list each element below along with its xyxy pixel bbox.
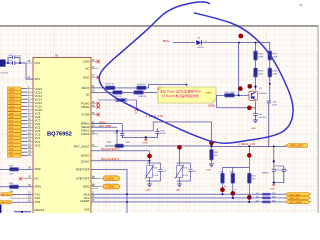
resistor R108 [134, 91, 143, 94]
wire x255 vertical to R100 [255, 43, 257, 51]
junction dots on cap net [7, 62, 9, 64]
resistor R35 column [232, 167, 234, 198]
svg-text:GND: GND [251, 128, 256, 130]
sticky note annotation [158, 87, 216, 103]
svg-text:VSS: VSS [84, 208, 90, 212]
note corner mark [159, 88, 162, 90]
svg-text:GND: GND [176, 190, 181, 192]
red dot on REG1 drop [209, 140, 214, 145]
no-connect X on NC pin [23, 178, 33, 180]
pull-up feed from rail [248, 146, 250, 167]
svg-text:VC0: VC0 [35, 143, 41, 147]
bus wire SCL [91, 197, 258, 199]
wire x269 vertical chain [269, 50, 271, 52]
left edge wire bottom [0, 205, 2, 214]
wire R106 to junction [146, 85, 186, 88]
wire between R105 R106 [115, 87, 137, 89]
wire Q7 down to C49 [255, 101, 257, 113]
red dot on feed [247, 153, 252, 158]
junction dot x269 [269, 83, 271, 85]
svg-text:CFETOFF: CFETOFF [76, 176, 90, 180]
bottom-left wire segment [14, 211, 31, 213]
wire to CF1 pin 48 [26, 62, 33, 64]
capacitor C46 [272, 169, 276, 182]
resistor R34 column [222, 167, 224, 194]
thermistor group RT2 [175, 163, 193, 184]
ground symbol under R33 [209, 164, 214, 167]
resistor R117 column [248, 167, 250, 202]
svg-text:PACK: PACK [82, 86, 90, 90]
upper wire with C36/C39 [122, 136, 157, 138]
resistor R101 [268, 51, 272, 60]
svg-text:0.1uF: 0.1uF [16, 56, 22, 58]
red power-ground flag [144, 137, 147, 140]
svg-text:PDSG: PDSG [81, 105, 90, 109]
wire DCHG to vertical drop [91, 169, 127, 213]
svg-text:R38: R38 [272, 193, 275, 195]
svg-text:HDQ: HDQ [83, 185, 90, 189]
svg-text:R108 1K: R108 1K [138, 96, 147, 98]
net label BAT_NTC (TS1) [1, 193, 13, 196]
wire RST_SHUT [91, 126, 117, 128]
wire R33 to gnd [211, 160, 213, 164]
svg-text:10nF: 10nF [272, 105, 278, 107]
svg-text:SS8550: SS8550 [259, 93, 268, 95]
resistor R30 [115, 144, 124, 147]
svg-text:9MF1P: 9MF1P [262, 172, 270, 174]
svg-text:SGND: SGND [208, 105, 215, 108]
wire to BAT pin 47 [26, 63, 33, 79]
wire R103 to Q7 [255, 77, 257, 90]
resistor R28 on SRP wire [0, 168, 33, 170]
red dot R35 [230, 191, 235, 196]
svg-text:GND: GND [206, 170, 211, 172]
net label pill BAT_MOS [103, 176, 120, 181]
svg-text:SRP: SRP [35, 167, 41, 171]
wire x239 vertical [238, 43, 240, 96]
resistor R38 [262, 193, 271, 195]
svg-text:MST_SCL: MST_SCL [290, 198, 301, 200]
svg-text:CHG: CHG [83, 60, 90, 64]
ground under C49 [253, 120, 258, 123]
net port MST_SDA [285, 193, 311, 196]
wire port to junction [5, 62, 26, 64]
port BAT+ (dark blue box, left edge) [0, 60, 5, 67]
freehand annotation loop [99, 2, 293, 143]
svg-text:0.1uF: 0.1uF [183, 175, 189, 177]
svg-text:R39: R39 [272, 197, 275, 199]
net port MST_ALERT [285, 200, 311, 203]
svg-text:1N5819: 1N5819 [197, 47, 205, 49]
svg-text:0.1uF: 0.1uF [153, 175, 159, 177]
svg-text:100R: 100R [258, 74, 264, 76]
resistor R107 [113, 91, 122, 94]
wire between R107 R108 [122, 91, 134, 93]
wire 3.3V rail [212, 145, 289, 147]
wire to diode [173, 42, 195, 44]
wire R100-R103 [255, 60, 257, 68]
wire to no-connect X D10 [127, 100, 136, 108]
capacitor C49 [253, 114, 257, 121]
svg-text:U1: U1 [55, 54, 59, 58]
wire REG1 branch to rail [116, 131, 118, 146]
junction dot + ground under caps [273, 182, 275, 184]
wire BREG [91, 124, 122, 131]
svg-text:10R: 10R [126, 142, 130, 144]
svg-text:1uF/35V: 1uF/35V [258, 117, 267, 119]
svg-text:BAT_NTC: BAT_NTC [2, 193, 12, 196]
left net-label stack VC16..VC0 [8, 87, 22, 158]
svg-text:b4: b4 [299, 3, 303, 7]
wire DFETOFF [91, 177, 103, 179]
svg-text:REG2: REG2 [81, 132, 90, 136]
resistor R106 [137, 86, 146, 89]
capacitor C43 (top) [8, 56, 20, 64]
wire REG1 to right [91, 122, 212, 146]
wire PACK row [91, 87, 106, 89]
resistor R104 [268, 68, 272, 77]
junction dot x239 [238, 42, 240, 44]
svg-text:DDSG: DDSG [81, 154, 90, 158]
svg-text:MST_ALERT: MST_ALERT [290, 201, 304, 204]
svg-text:SGND: SGND [206, 93, 213, 95]
svg-text:100R: 100R [258, 57, 264, 59]
svg-text:1_REG1_3.3V: 1_REG1_3.3V [238, 142, 256, 146]
wire drop bottom-left [21, 212, 23, 213]
SGND wire lower [217, 107, 256, 109]
svg-text:FUSE: FUSE [82, 113, 90, 117]
svg-text:打 PinC/S 电芯临时短接紧张: 打 PinC/S 电芯临时短接紧张 [162, 93, 199, 98]
svg-text:R100: R100 [258, 54, 264, 56]
NTC1 feed vertical [149, 151, 151, 163]
wire diode to corner [202, 43, 270, 51]
bus wire SDA [91, 193, 258, 195]
IC right pin names [74, 60, 91, 212]
svg-text:10R: 10R [9, 174, 13, 176]
3.3V rail left part with R30 [105, 145, 212, 147]
svg-text:CF1: CF1 [35, 61, 41, 65]
svg-text:BAT+: BAT+ [163, 39, 170, 43]
capacitor C44 (on main wire) [13, 61, 15, 65]
wire BALANCE RT1 [91, 160, 150, 162]
resistor R100 [254, 51, 258, 60]
capacitor C48 [267, 101, 271, 146]
IC left pin names [35, 61, 45, 212]
wire BALANCE RT2 [91, 150, 150, 152]
svg-text:DFETOFF: DFETOFF [76, 168, 90, 172]
red dot above wire [238, 34, 243, 39]
svg-text:51K: 51K [214, 155, 218, 157]
NTC2 feed vertical from rail [179, 146, 181, 163]
svg-text:R101: R101 [272, 54, 278, 56]
junction dot above Q7 [254, 86, 256, 88]
ground symbol under RT1 [147, 184, 152, 187]
red dot R34 [220, 187, 225, 192]
resistor R102 at Q7 base [234, 94, 249, 96]
svg-text:DMC1(DCK): DMC1(DCK) [275, 169, 288, 171]
red dot pair near Q7 [238, 86, 243, 91]
svg-text:100R: 100R [272, 74, 278, 76]
resistor R105 [106, 86, 115, 89]
red dot R117 [247, 195, 252, 200]
wire LD row [91, 91, 113, 93]
capacitor C36 [120, 131, 124, 138]
thermistor group RT1 [145, 163, 163, 184]
junction dot on upper wire [145, 136, 147, 138]
svg-text:R103: R103 [258, 71, 264, 73]
wire TS2 pin 23 [10, 197, 33, 199]
svg-text:R106 1K: R106 1K [137, 84, 146, 86]
sheet top border [0, 25, 319, 27]
wires from stack to IC left pins [21, 86, 33, 156]
junction dots on vertical drop [126, 193, 128, 195]
svg-text:BALANCE RT2: BALANCE RT2 [101, 147, 120, 151]
capacitor C47 loop [274, 166, 284, 169]
wire R104 down through C48 [269, 77, 271, 101]
capacitor C39 [155, 129, 159, 138]
red dot below Q7 [247, 105, 252, 110]
svg-text:D_MOS: D_MOS [106, 178, 115, 181]
svg-text:TS3: TS3 [35, 200, 41, 204]
resistor R40 [262, 201, 271, 203]
transistor Q7 [249, 91, 258, 100]
sheet right border [318, 25, 319, 213]
svg-text:C_MOS: C_MOS [106, 186, 115, 189]
svg-text:MST_SDA: MST_SDA [290, 193, 301, 196]
svg-text:RST_SHUT: RST_SHUT [74, 145, 90, 149]
svg-text:SGND: SGND [142, 142, 148, 144]
IC U1 BQ76952 body [33, 58, 91, 216]
resistor R39 [262, 197, 271, 199]
svg-text:BAT: BAT [35, 77, 41, 81]
svg-text:GND: GND [270, 188, 275, 190]
bus wire ALERT [91, 201, 258, 203]
svg-text:REG18: REG18 [35, 208, 45, 212]
svg-text:GND: GND [146, 190, 151, 192]
resistor R29 on SRN wire [0, 186, 33, 188]
svg-text:R102 100R: R102 100R [225, 92, 236, 94]
net port MST_SCL [285, 196, 311, 199]
svg-text:SRN: SRN [35, 185, 41, 189]
svg-text:R105 1K: R105 1K [106, 84, 115, 86]
junction dot x255 [255, 42, 257, 44]
svg-text:uF/100V: uF/100V [1, 73, 9, 75]
wire CFETOFF [91, 186, 103, 188]
svg-text:VREG_MST: VREG_MST [290, 145, 304, 148]
svg-text:BALANCE RT1: BALANCE RT1 [101, 157, 120, 161]
svg-text:R104: R104 [272, 71, 278, 73]
decoupling caps C46/C47 on rail drop [273, 146, 275, 169]
right pin stubs with numbers [91, 59, 100, 189]
wire R101-R104 [269, 60, 271, 68]
svg-text:R40: R40 [272, 201, 275, 203]
svg-text:DSG: DSG [83, 75, 90, 79]
svg-text:BQ76952: BQ76952 [47, 132, 72, 138]
resistor R33 vertical [211, 146, 213, 149]
feed wire horizontal [223, 166, 250, 168]
ground symbol under RT2 [177, 184, 182, 187]
diode D9 [196, 40, 201, 45]
sheet background [0, 26, 318, 213]
resistor R109 on PCHG [98, 99, 115, 101]
wire TS1 pin 21 [12, 193, 33, 195]
net port VREG_MST [285, 144, 307, 148]
red dot NTC2 feed [177, 145, 182, 150]
net label CAL_NTC (TS3) [0, 201, 12, 204]
net label pill CHG_MOS [103, 184, 120, 189]
red dot NTC1 feed [147, 154, 152, 159]
svg-text:ALERT: ALERT [80, 199, 90, 203]
resistor R103 [254, 68, 258, 77]
svg-text:0.1uF: 0.1uF [160, 133, 166, 135]
svg-text:CAL_NTC: CAL_NTC [1, 201, 11, 204]
wire TS3 pin 24 [12, 201, 34, 203]
svg-text:DCHG: DCHG [81, 160, 90, 164]
svg-text:注意: Pack+ 改为C后(要在PACK: 注意: Pack+ 改为C后(要在PACK [160, 88, 202, 93]
